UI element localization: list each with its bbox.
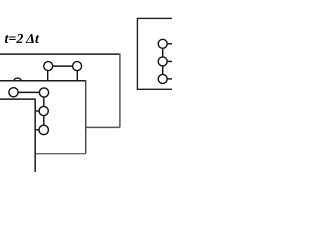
node C (middle chain circle) [39,106,48,115]
wire connector L-R [48,65,77,67]
wire stem C-D [43,115,45,125]
box B1 bottom edge [0,126,120,128]
box M (front lower-left snapshot box, cut at left and bottom) [0,99,35,177]
box B3 right edge [85,80,87,154]
wire stem from node L down to B3 edge [47,70,49,82]
box M right edge [34,99,36,177]
wire tick from node C to box M edge [30,110,39,112]
wire stem F-G [162,66,164,75]
hidden node (bump circle poking above B3 top edge) [14,78,22,86]
wire tick from node D to box M edge [30,129,39,131]
box B3 (middle snapshot box, cut at left edge) [0,81,86,154]
node A (left circle of middle pair) [9,88,18,97]
box B1 top edge [0,53,120,55]
wire connector A-B [14,91,45,93]
box B1 (large top-left snapshot box, cut at left edge) [0,54,120,127]
box M top edge [0,98,35,100]
node G (bottom circle of right chain) [158,74,172,83]
node D (bottom chain circle) [39,125,48,134]
svg-text:t=2 Δt: t=2 Δt [5,32,40,47]
node R (right circle pair in B1) [73,62,82,71]
node F (middle circle of right chain) [158,57,172,66]
node B (right circle of middle pair) [39,88,48,97]
node L (left circle pair in B1) [44,62,53,71]
box B3 bottom edge [0,153,86,155]
box B4 (top-right snapshot box) [137,18,177,89]
wire stem E-F [162,48,164,57]
box B3 top edge [0,80,86,82]
node E (top circle of right chain) [158,39,172,48]
box B1 right edge [119,53,121,127]
wire stem from node R down to B3 edge [76,70,78,82]
wire stem B-C [43,97,45,107]
